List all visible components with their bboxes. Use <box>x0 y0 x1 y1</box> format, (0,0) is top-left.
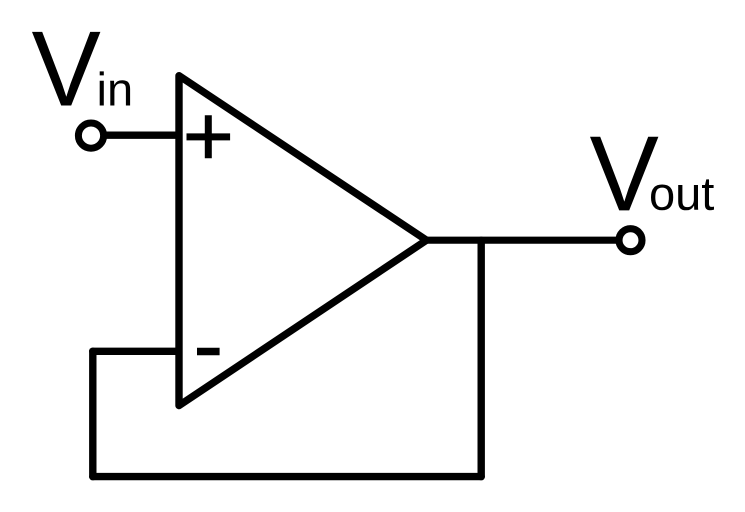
wire: feedback, bottom horizontal run <box>93 473 481 480</box>
input terminal (open circle) <box>78 123 103 148</box>
output terminal (open circle) <box>619 229 642 252</box>
op-amp U1 triangle body <box>179 76 427 406</box>
op-amp minus (inverting input marker) <box>197 348 220 355</box>
wire: feedback, horizontal into inverting input <box>93 348 183 355</box>
wire: feedback, left vertical rise <box>89 351 96 476</box>
label Vin <box>32 32 130 106</box>
wire: output from op-amp apex to Vout terminal <box>424 237 620 244</box>
op-amp plus (non-inverting input marker) <box>187 115 231 158</box>
label Vout <box>590 137 714 211</box>
wire: input from Vin terminal to op-amp non-inverting input <box>100 131 183 138</box>
wire: feedback, vertical drop from output node <box>478 240 485 476</box>
